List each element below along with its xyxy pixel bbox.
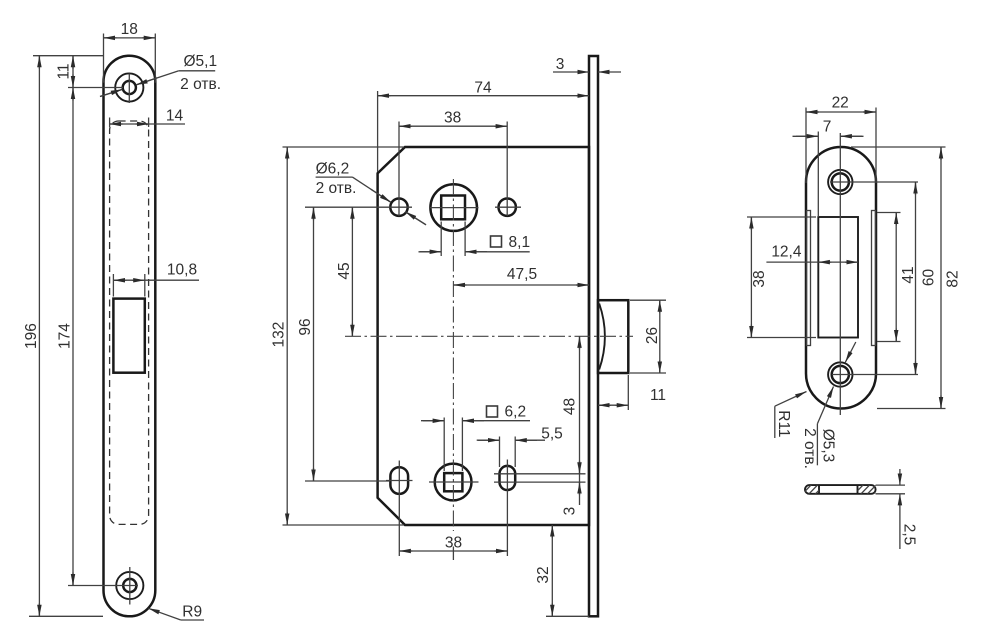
svg-text:22: 22 — [832, 95, 849, 112]
svg-text:3: 3 — [556, 56, 565, 73]
svg-text:14: 14 — [166, 108, 184, 125]
svg-text:2 отв.: 2 отв. — [316, 180, 357, 197]
svg-text:82: 82 — [945, 270, 962, 287]
svg-text:41: 41 — [900, 266, 917, 283]
svg-text:R9: R9 — [182, 603, 202, 620]
svg-text:60: 60 — [921, 269, 938, 287]
svg-text:Ø6,2: Ø6,2 — [316, 161, 350, 178]
svg-text:32: 32 — [535, 566, 552, 583]
svg-text:45: 45 — [336, 262, 353, 279]
svg-text:96: 96 — [297, 318, 314, 335]
svg-text:Ø5,3: Ø5,3 — [820, 429, 837, 463]
svg-text:7: 7 — [823, 119, 832, 136]
svg-text:74: 74 — [474, 80, 492, 97]
svg-text:3: 3 — [561, 507, 578, 516]
svg-text:174: 174 — [57, 323, 74, 349]
svg-text:11: 11 — [56, 63, 73, 79]
svg-text:132: 132 — [271, 322, 288, 348]
svg-text:48: 48 — [562, 398, 579, 415]
svg-text:38: 38 — [444, 110, 461, 127]
svg-text:2,5: 2,5 — [900, 524, 917, 546]
svg-text:Ø5,1: Ø5,1 — [183, 53, 217, 70]
svg-text:38: 38 — [751, 270, 768, 287]
svg-text:196: 196 — [23, 323, 40, 349]
svg-text:R11: R11 — [775, 410, 792, 437]
svg-text:11: 11 — [650, 387, 666, 404]
svg-text:12,4: 12,4 — [771, 243, 802, 260]
svg-text:2 отв.: 2 отв. — [801, 428, 818, 469]
svg-text:8,1: 8,1 — [509, 234, 531, 251]
svg-text:47,5: 47,5 — [507, 266, 537, 283]
svg-text:38: 38 — [445, 535, 462, 552]
svg-text:10,8: 10,8 — [167, 262, 197, 279]
svg-text:6,2: 6,2 — [505, 404, 527, 421]
svg-text:26: 26 — [644, 327, 661, 344]
svg-text:2 отв.: 2 отв. — [180, 76, 221, 93]
svg-text:18: 18 — [121, 21, 138, 38]
